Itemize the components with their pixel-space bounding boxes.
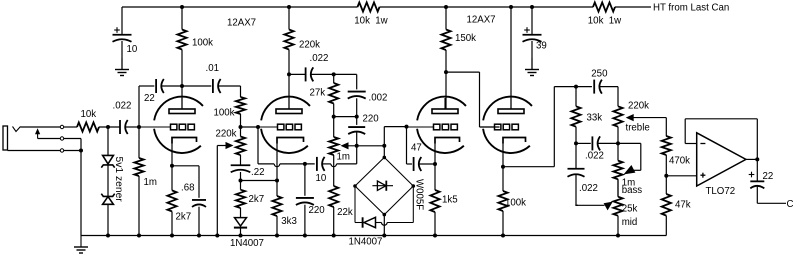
- wire 1N4007 line left: [355, 222, 363, 224]
- node V1a plate junction: [180, 84, 184, 88]
- node gain wiper ground junction: [215, 234, 219, 238]
- wire jack sleeve to ground rail: [80, 151, 82, 236]
- svg-text:150k: 150k: [455, 33, 476, 44]
- wire zener column top: [107, 127, 109, 155]
- wire bridge bottom stem: [383, 215, 385, 236]
- wire grid node to V1b: [241, 126, 260, 128]
- wire 100k top: [181, 7, 183, 30]
- capacitor 22 (output electrolytic): [750, 180, 764, 182]
- wire treble wiper to 470k: [665, 118, 667, 137]
- wire 3k3 bottom: [276, 216, 278, 236]
- resistor 2k7 (V1b cathode): [236, 190, 245, 208]
- wire V1a cathode lead: [171, 144, 173, 166]
- svg-text:250: 250: [591, 68, 608, 79]
- wire bridge left leg: [354, 186, 356, 223]
- wire .01 to 100k: [218, 85, 241, 87]
- svg-text:22: 22: [144, 93, 155, 104]
- potentiometer 1m: [329, 137, 338, 155]
- svg-text:33k: 33k: [587, 113, 603, 124]
- ground (below 10uF cap): [121, 58, 123, 70]
- wire 220k top: [288, 7, 290, 30]
- capacitor .022 (input): [119, 120, 121, 134]
- node 220 cap junction: [303, 162, 307, 166]
- capacitor 10 (series): [316, 157, 318, 171]
- node 1m ground junction: [137, 234, 141, 238]
- wire output cap bottom: [756, 186, 758, 203]
- svg-text:.022: .022: [579, 183, 598, 194]
- wire 10uF cap branch: [121, 7, 123, 35]
- svg-text:39: 39: [536, 41, 547, 52]
- node jack sleeve junction: [79, 149, 83, 153]
- jack switch arrow: [37, 133, 39, 138]
- node rail junction 100k: [180, 5, 184, 9]
- node 22k ground junction: [332, 234, 336, 238]
- resistor 150k (V2a plate): [441, 30, 450, 51]
- svg-text:220k: 220k: [216, 129, 237, 140]
- node wiper line junction: [355, 144, 359, 148]
- resistor 27k: [329, 83, 338, 104]
- wire V2a grid horizontal: [384, 126, 406, 128]
- svg-text:220k: 220k: [299, 40, 320, 51]
- resistor 10k 1w (first): [358, 2, 380, 11]
- potentiometer 220k (gain): [236, 137, 245, 156]
- op-amp minus sign: [700, 143, 705, 145]
- node V1a grid junction: [137, 125, 141, 129]
- capacitor .22 (gain pot): [231, 164, 251, 166]
- resistor 22k: [329, 186, 338, 207]
- svg-text:22: 22: [763, 171, 774, 182]
- svg-text:27k: 27k: [310, 88, 326, 99]
- wire cathode to tone stack: [503, 166, 554, 168]
- svg-text:220k: 220k: [628, 101, 649, 112]
- svg-text:10: 10: [127, 44, 138, 55]
- jack tip open contact: [60, 125, 63, 128]
- resistor 100k (V2b cathode): [498, 191, 507, 211]
- node rail junction 220k: [287, 5, 291, 9]
- wire ground rail: [81, 235, 666, 237]
- wire bass wiper bracket: [640, 143, 642, 170]
- node 33k bottom junction: [574, 141, 578, 145]
- input jack body: [3, 126, 8, 150]
- capacitor 47 (series): [413, 157, 415, 171]
- cathode V2b: [503, 138, 526, 144]
- wire lower signal run 3: [322, 163, 331, 165]
- node zener junction: [106, 125, 110, 129]
- node grid drop junction: [256, 125, 260, 129]
- wire pot bottom to .22 cap: [240, 155, 242, 165]
- svg-text:mid: mid: [622, 217, 638, 228]
- op-amp U1 TLO72: [697, 133, 746, 186]
- wire .022 v top: [575, 143, 577, 168]
- triode V1b (12AX7 second half): [259, 97, 310, 153]
- resistor 100k (V1b grid stop): [236, 97, 245, 114]
- cathode V1a: [172, 138, 197, 144]
- svg-text:100k: 100k: [505, 198, 526, 209]
- wire bass to mid: [617, 179, 619, 196]
- resistor 10k (input): [77, 122, 99, 131]
- wire .22 cap to 2k7 node: [240, 172, 242, 190]
- svg-text:HT from Last Can: HT from Last Can: [653, 3, 729, 14]
- wire 10k to zener node: [99, 126, 120, 128]
- jack sleeve open contact: [60, 149, 63, 152]
- wire V2a cathode lead: [434, 144, 436, 165]
- node 33k top junction: [574, 85, 578, 89]
- wire bridge right leg: [412, 186, 414, 223]
- wire opamp output: [746, 158, 757, 160]
- svg-text:1N4007: 1N4007: [349, 237, 383, 248]
- resistor 220k (V1b plate): [284, 30, 293, 50]
- svg-text:1k5: 1k5: [442, 195, 458, 206]
- svg-text:47: 47: [411, 143, 422, 154]
- svg-text:10k 1w: 10k 1w: [588, 16, 622, 27]
- wire 1m pot bottom: [333, 155, 335, 186]
- node rail junction 150k: [444, 5, 448, 9]
- capacitor .68 (cathode bypass): [192, 199, 206, 201]
- svg-text:100k: 100k: [214, 108, 235, 119]
- capacitor .022 (V1b coupling): [305, 67, 307, 81]
- node V2a plate junction: [444, 70, 448, 74]
- svg-text:10k: 10k: [81, 109, 97, 120]
- wire feedback loop: [684, 119, 686, 144]
- wire V2b cathode lead: [502, 144, 504, 167]
- wire plate to .022: [289, 73, 306, 75]
- svg-text:2k7: 2k7: [249, 194, 265, 205]
- bridge inner diode: [372, 185, 393, 187]
- node V2b cathode junction: [501, 165, 505, 169]
- wire .68 cap top: [198, 166, 200, 198]
- wire jack sleeve line right: [64, 150, 81, 152]
- wire 220k pot top: [240, 127, 242, 137]
- resistor 10k 1w (second): [593, 2, 615, 11]
- wire between zeners: [107, 165, 109, 197]
- svg-text:1m: 1m: [144, 177, 157, 188]
- wire 1k5 top: [434, 164, 436, 190]
- node opamp plus junction: [664, 174, 668, 178]
- treble wiper arrow: [632, 117, 667, 119]
- ground (below 39uF cap): [531, 58, 533, 70]
- svg-text:25k: 25k: [622, 204, 638, 215]
- svg-text:1N4007: 1N4007: [230, 238, 264, 249]
- wire 27k top: [333, 74, 335, 83]
- svg-text:treble: treble: [626, 123, 650, 134]
- zener diode 5v1 (lower): [101, 194, 114, 197]
- node 3k3 ground junction: [275, 234, 279, 238]
- svg-text:2k7: 2k7: [176, 212, 192, 223]
- cathode V1b: [277, 138, 304, 144]
- input jack tip contact: [13, 127, 21, 132]
- wire .022 to grid node: [125, 126, 139, 128]
- wire bass pot bottom: [617, 179, 619, 196]
- svg-text:.022: .022: [585, 151, 604, 162]
- resistor 470k: [662, 136, 671, 155]
- bridge rectifier W005F diamond: [355, 157, 413, 214]
- wire 39uF cap branch: [531, 7, 533, 35]
- node 100k ground junction: [501, 234, 505, 238]
- svg-text:10k 1w: 10k 1w: [354, 16, 388, 27]
- wire 22 cap to plate node: [161, 85, 182, 87]
- svg-text:.022: .022: [113, 101, 132, 112]
- svg-text:220: 220: [363, 114, 380, 125]
- node rail junction 39uF: [530, 5, 534, 9]
- wire 27k to .002 bottom: [334, 116, 357, 118]
- capacitor .01 (coupling): [212, 79, 214, 93]
- wire 1N4007 line right: [387, 222, 413, 224]
- capacitor .002: [348, 91, 366, 93]
- wire 33k top: [575, 87, 577, 107]
- svg-text:bass: bass: [622, 185, 643, 196]
- wire HT rail left segment: [122, 6, 358, 8]
- wire output cap top: [756, 159, 758, 181]
- wire grid drop column: [257, 127, 259, 164]
- diode 1N4007 (V1b cathode): [235, 218, 247, 226]
- node V1b plate junction: [287, 72, 291, 76]
- wire treble pot bottom: [617, 127, 619, 144]
- capacitor 10 (electrolytic filter): [113, 34, 132, 36]
- capacitor 250 (treble): [593, 80, 595, 94]
- zener diode 5v1 (upper): [103, 155, 114, 164]
- node 220 ground junction: [303, 234, 307, 238]
- node V2a grid drop junction: [405, 125, 409, 129]
- wire 220k bottom to plate: [288, 50, 290, 110]
- node .68 ground junction: [197, 234, 201, 238]
- wire 100k cathode bottom: [502, 211, 504, 236]
- wire HT rail middle segment: [380, 6, 594, 8]
- svg-text:.002: .002: [369, 93, 388, 104]
- node V1b cathode junction: [275, 179, 279, 183]
- wire lower signal run 4: [337, 163, 357, 165]
- wire .002 bottom: [356, 98, 358, 116]
- wire 220 cap top: [304, 164, 306, 196]
- svg-text:12AX7: 12AX7: [466, 15, 495, 26]
- svg-text:C: C: [787, 199, 793, 210]
- wire zener column bottom: [107, 204, 109, 235]
- svg-text:.68: .68: [181, 183, 194, 194]
- wire .022 h right: [597, 142, 618, 144]
- svg-text:10: 10: [316, 173, 327, 184]
- node 2k7 ground junction: [170, 234, 174, 238]
- wire cathode branch: [172, 165, 199, 167]
- wire 250 to treble pot: [599, 86, 618, 88]
- wire 1m pot top: [333, 117, 335, 137]
- resistor 3k3 (V1b cathode): [272, 196, 281, 216]
- wire mid pot bottom: [617, 216, 619, 236]
- node bridge ground junction: [382, 234, 386, 238]
- wire HT rail right segment: [615, 6, 651, 8]
- wire 2k7 top: [171, 166, 173, 191]
- svg-text:100k: 100k: [192, 38, 213, 49]
- wire direct coupling: [446, 71, 480, 73]
- wire 1k5 bottom: [434, 212, 436, 236]
- svg-text:.22: .22: [251, 167, 264, 178]
- node rail junction V2b plate: [509, 5, 513, 9]
- gain pot wiper arrow: [217, 145, 225, 147]
- svg-text:220: 220: [309, 205, 326, 216]
- node V2a cathode junction: [433, 162, 437, 166]
- wire 100k bottom to plate: [181, 50, 183, 110]
- triode V1a (12AX7 first half): [139, 97, 203, 153]
- wire 47k bottom: [665, 216, 667, 236]
- node treble bottom junction: [616, 141, 620, 145]
- wire 47 cap to cathode: [418, 163, 435, 165]
- svg-text:TLO72: TLO72: [706, 186, 736, 197]
- wire 2k7 to diode: [240, 208, 242, 218]
- resistor 33k: [571, 106, 580, 126]
- capacitor 220 (second): [348, 126, 365, 128]
- wire jack tip line right: [64, 126, 77, 128]
- jack middle open contact: [60, 137, 63, 140]
- node .002 bottom junction: [355, 115, 359, 119]
- wire 220 cap bottom: [304, 205, 306, 236]
- wire jack middle line: [38, 138, 61, 140]
- wire grid column to diamond: [383, 127, 385, 146]
- wire 100k to grid node: [240, 114, 242, 127]
- svg-text:.01: .01: [206, 63, 219, 74]
- node .22/2k7 junction: [239, 179, 243, 183]
- bass wiper arrow: [624, 165, 636, 174]
- capacitor 22 (feedback): [155, 79, 157, 93]
- wire 150k top: [445, 7, 447, 30]
- resistor 1m (V1a grid): [134, 158, 143, 176]
- wire 22 cap vertical: [138, 86, 140, 127]
- wire diode to ground: [240, 228, 242, 236]
- wire 2k7 bottom: [171, 211, 173, 235]
- svg-text:47k: 47k: [675, 200, 691, 211]
- wire wiper line: [357, 145, 385, 147]
- svg-text:22k: 22k: [337, 207, 353, 218]
- wire .022 v bottom to mid wiper: [575, 174, 577, 205]
- 1m pot wiper arrow: [347, 145, 357, 147]
- node 27k top junction: [332, 72, 336, 76]
- svg-text:5v1 zener: 5v1 zener: [113, 157, 124, 203]
- resistor 100k (V1a plate): [177, 30, 186, 50]
- wire 220 cap2 top: [356, 117, 358, 125]
- hop over 22k column: [331, 164, 337, 167]
- diode 1N4007 (bridge bypass): [362, 217, 364, 227]
- triode V2b (12AX7 fourth): [480, 97, 532, 153]
- wire lower signal run 2: [280, 163, 315, 165]
- wire 27k bottom: [333, 104, 335, 117]
- wire lower signal run: [258, 163, 274, 165]
- wire gain wiper to ground: [216, 146, 218, 236]
- node output junction: [755, 157, 759, 161]
- ground (main rail): [80, 236, 82, 248]
- node 1k5 ground junction: [433, 234, 437, 238]
- wire .022 h left: [576, 142, 591, 144]
- triode V2a (12AX7 third): [407, 97, 466, 153]
- svg-text:.022: .022: [310, 53, 329, 64]
- potentiometer 220k (treble): [613, 106, 622, 126]
- wire jack middle line right: [64, 138, 81, 140]
- wire 33k bottom: [575, 127, 577, 144]
- hop over bridge stem: [382, 223, 388, 226]
- node V1b grid junction: [239, 125, 243, 129]
- svg-text:3k3: 3k3: [281, 216, 297, 227]
- wire .002 top: [356, 74, 358, 89]
- wire .68 cap bottom: [198, 207, 200, 236]
- capacitor 220 (first): [296, 197, 314, 199]
- node zener ground junction: [106, 234, 110, 238]
- capacitor .022 (tone vertical): [568, 168, 585, 170]
- wire 22k bottom: [333, 207, 335, 236]
- wire jack tip line: [21, 126, 61, 128]
- resistor 1k5 (V2a cathode): [430, 190, 439, 212]
- node 27k bottom junction: [332, 115, 336, 119]
- resistor 2k7 (V1a cathode): [167, 190, 176, 211]
- mid wiper arrow: [575, 204, 604, 206]
- wire 100k cathode top: [502, 167, 504, 191]
- svg-text:W005F: W005F: [413, 179, 424, 210]
- potentiometer 1m (bass): [613, 161, 622, 180]
- svg-text:1m: 1m: [337, 152, 350, 163]
- svg-text:12AX7: 12AX7: [227, 18, 256, 29]
- wire 1m top: [138, 127, 140, 158]
- resistor 47k: [662, 194, 671, 216]
- wire plate node to .01 cap: [182, 85, 211, 87]
- wire minus input: [685, 143, 697, 145]
- wire jack sleeve line: [8, 150, 61, 152]
- wire .022 to 27k node: [311, 73, 357, 75]
- cathode V2a: [435, 138, 460, 144]
- wire V1b cathode lead: [276, 144, 278, 181]
- svg-text:470k: 470k: [669, 155, 690, 166]
- wire .22 node to cathode node: [241, 180, 278, 182]
- potentiometer 25k (mid): [613, 197, 622, 216]
- op-amp plus sign: [700, 174, 705, 176]
- wire 220 cap2 bottom: [356, 132, 358, 164]
- capacitor 39 (electrolytic filter): [523, 34, 542, 36]
- wire 47 cap drop column: [406, 127, 408, 164]
- node 1N4007 ground junction: [239, 234, 243, 238]
- wire plus input: [666, 175, 696, 177]
- node mid ground junction: [616, 234, 620, 238]
- wire 1m bottom: [138, 176, 140, 236]
- capacitor .022 (tone horizontal): [591, 136, 593, 150]
- wire V2b plate lead: [510, 7, 512, 109]
- node wiper grid junction: [382, 144, 386, 148]
- wire 470k bottom: [665, 155, 667, 194]
- wire 150k bottom to plate: [445, 50, 447, 109]
- wire bass pot top: [617, 143, 619, 160]
- hop over V1b cathode column: [274, 164, 280, 167]
- wire 3k3 top: [276, 181, 278, 197]
